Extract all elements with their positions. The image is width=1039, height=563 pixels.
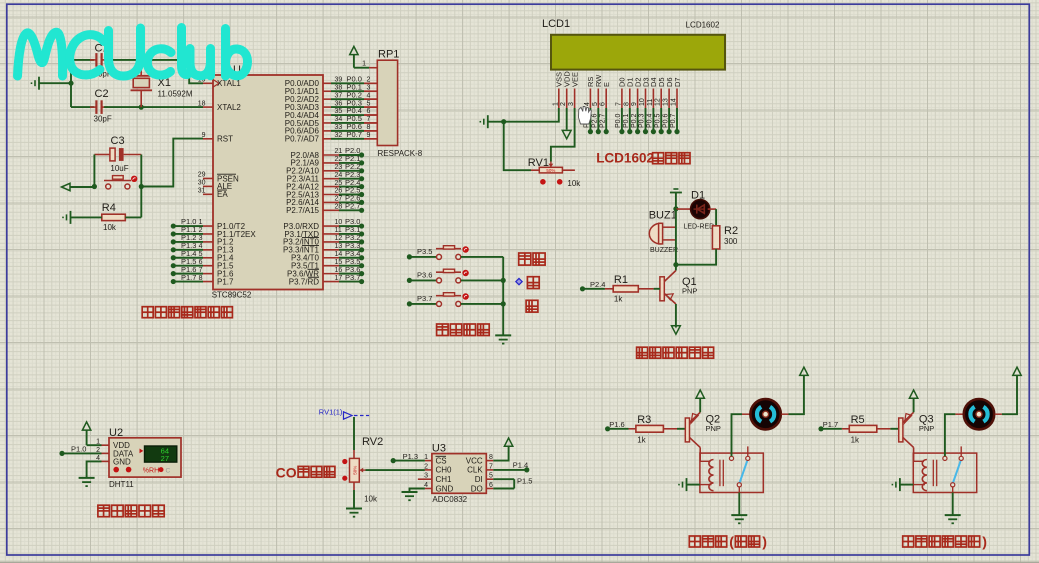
svg-text:ADC0832: ADC0832: [432, 495, 467, 504]
resistor R2: [712, 226, 719, 249]
svg-text:11: 11: [647, 99, 654, 106]
svg-text:P3.7/RD: P3.7/RD: [289, 277, 319, 286]
svg-text:DHT11: DHT11: [109, 480, 134, 489]
node P1.1: [171, 231, 176, 236]
ground (coil 继电器(通风)): [679, 478, 687, 491]
node alarm top: [673, 206, 678, 211]
svg-text:2: 2: [424, 463, 428, 470]
svg-text:P0.4: P0.4: [647, 113, 654, 128]
svg-text:P3.7: P3.7: [345, 273, 360, 282]
wire P0.1 to RP1: [331, 90, 364, 92]
ground arrow (reset, pointing left): [62, 183, 71, 190]
svg-text:CH0: CH0: [436, 466, 453, 475]
svg-text:300: 300: [724, 237, 738, 246]
svg-text:10k: 10k: [103, 223, 117, 232]
lcd LCD1 screen: [551, 35, 725, 70]
wire C2 to node: [104, 106, 141, 108]
wire P1.3: [173, 249, 203, 251]
node P2.1: [359, 160, 364, 165]
svg-text:1k: 1k: [851, 436, 860, 445]
svg-text:C2: C2: [95, 88, 109, 100]
wire C2 left lead: [71, 106, 94, 108]
label 继电器净化器): [903, 536, 914, 547]
wire GND (U3): [410, 489, 425, 493]
wire pivot to ground: [738, 493, 740, 516]
node P3.1: [359, 231, 364, 236]
wire lcd RW: [597, 108, 599, 132]
wire motor right: [995, 413, 1002, 415]
node XTAL2 net: [139, 105, 144, 110]
capacitor C1: [90, 43, 112, 79]
wire ground-arrow to button: [70, 186, 94, 188]
wire P1.7 to R5: [821, 428, 842, 430]
ground (RV2): [346, 508, 362, 510]
wire R5 to Q3: [877, 428, 891, 430]
adc U3 ADC0832: [418, 454, 493, 494]
svg-text:P2.7: P2.7: [345, 202, 360, 211]
push button (reset): [104, 176, 137, 189]
svg-text:P0.7: P0.7: [670, 113, 677, 128]
wire P3.7 to button: [409, 303, 436, 305]
svg-text:5: 5: [489, 473, 493, 480]
svg-text:6: 6: [600, 102, 607, 106]
svg-text:RV1: RV1: [528, 157, 549, 169]
wire lcd D4: [652, 108, 654, 132]
svg-text:P1.7: P1.7: [823, 420, 838, 429]
wire lcd E: [605, 108, 607, 132]
node P3.3: [359, 247, 364, 252]
wire P1.3 to CS: [393, 460, 425, 462]
svg-text:10uF: 10uF: [110, 164, 128, 173]
svg-text:P3.6: P3.6: [417, 270, 432, 279]
node P2.4: [580, 286, 585, 291]
node P3.7 (button): [407, 301, 412, 306]
relay contact stubs: [731, 453, 733, 456]
svg-text:30: 30: [198, 180, 206, 187]
svg-text:RESPACK-8: RESPACK-8: [378, 149, 423, 158]
relay pivot: [951, 483, 955, 487]
wire P3.2: [339, 241, 362, 243]
svg-text:12: 12: [655, 98, 662, 106]
svg-text:31: 31: [198, 188, 206, 195]
power terminal (RP1): [350, 46, 358, 54]
node P1.2: [171, 239, 176, 244]
wire P2.3: [339, 178, 362, 180]
wire P0.4 to RP1: [331, 114, 364, 116]
svg-text:P0.6: P0.6: [662, 113, 669, 128]
ground (U2): [79, 477, 95, 479]
wire P3.6 button to bus: [461, 279, 503, 281]
node lcd D5: [659, 129, 664, 134]
svg-text:PNP: PNP: [919, 424, 934, 433]
push button P3.7: [436, 293, 469, 307]
resistor R3: [636, 425, 664, 432]
node lcd D6: [667, 129, 672, 134]
rv1 state dots: [540, 179, 546, 185]
capacitor C3 (polarized): [94, 135, 141, 173]
svg-text:DO: DO: [471, 484, 483, 493]
wire RV2 wiper to CH0: [366, 469, 425, 471]
wire lcd D0: [621, 108, 623, 132]
svg-text:2: 2: [367, 77, 371, 84]
svg-text:CO: CO: [276, 465, 297, 481]
wire P0.3 to RP1: [331, 106, 364, 108]
svg-text:1k: 1k: [614, 295, 623, 304]
node P1.0: [171, 223, 176, 228]
label 单片机最小系统: [142, 307, 153, 318]
svg-text:C: C: [166, 468, 171, 475]
push button P3.6: [436, 269, 469, 283]
svg-text:BUZZER: BUZZER: [650, 247, 678, 254]
svg-text:R1: R1: [614, 274, 628, 286]
svg-text:LED-RED: LED-RED: [684, 224, 715, 231]
svg-text:7: 7: [489, 463, 493, 470]
svg-text:P0.5: P0.5: [654, 113, 661, 128]
node lcd D1: [627, 129, 632, 134]
svg-text:4: 4: [584, 102, 591, 106]
label 继电器(通风): [689, 536, 700, 547]
svg-text:PNP: PNP: [706, 424, 721, 433]
wire Q2 emitter up: [699, 398, 701, 412]
relay box 继电器净化器): [913, 453, 976, 492]
label 减: [526, 300, 538, 312]
svg-text:5: 5: [199, 251, 203, 258]
svg-text:R3: R3: [637, 414, 651, 426]
wire VSS to ground: [488, 108, 559, 122]
wire R2 bottom: [676, 249, 716, 265]
svg-text:RV1(1): RV1(1): [319, 408, 343, 417]
pin 4 U2: [102, 460, 110, 462]
wire VDD (U2): [87, 444, 102, 446]
op-amp U1 microcontroller STC89C52: [198, 75, 343, 290]
node P3.5: [359, 263, 364, 268]
wire node to RV1: [504, 122, 531, 171]
node lcd D2: [635, 129, 640, 134]
svg-text:%RH: %RH: [143, 468, 159, 475]
node P2.4: [359, 184, 364, 189]
wire coil to ground: [700, 484, 712, 486]
ground (buttons): [495, 334, 511, 336]
wire P1.6 to R3: [608, 428, 629, 430]
svg-text:3: 3: [568, 102, 575, 106]
wire pivot to ground: [952, 493, 954, 516]
svg-text:P0.7: P0.7: [347, 130, 362, 139]
node P3.5 (button): [407, 254, 412, 259]
transistor Q1 PNP: [660, 271, 676, 305]
wire ground to junction: [39, 82, 71, 84]
svg-text:D1: D1: [691, 190, 705, 202]
svg-text:LCD1: LCD1: [542, 18, 570, 30]
svg-text:RP1: RP1: [378, 49, 399, 61]
svg-text:STC89C52: STC89C52: [212, 291, 252, 300]
relay box 继电器(通风): [700, 453, 763, 492]
svg-text:2: 2: [199, 227, 203, 234]
node P2.3: [359, 176, 364, 181]
wire P3.6 to button: [409, 279, 436, 281]
svg-text:P3.7: P3.7: [417, 294, 432, 303]
svg-text:): ): [982, 535, 987, 551]
wire RV2 bottom: [353, 482, 355, 490]
node bus P3.6: [501, 278, 506, 283]
wire C3 right vertical: [140, 155, 142, 187]
wire P3.6: [339, 273, 362, 275]
transistor Q3 PNP: [899, 412, 914, 447]
svg-text:P0.3: P0.3: [639, 113, 646, 128]
power terminal (U3): [504, 438, 512, 446]
svg-text:6: 6: [367, 108, 371, 115]
wire P2.6: [339, 201, 362, 203]
wire motor left: [945, 414, 956, 456]
wire P2.4: [339, 186, 362, 188]
wire P0.5 to RP1: [331, 122, 364, 124]
buzzer BUZ1: [649, 210, 678, 255]
wire alarm vertical: [675, 209, 677, 265]
svg-text:2: 2: [560, 102, 567, 106]
potentiometer RV1: [531, 162, 575, 174]
label 设置: [519, 253, 531, 265]
wire P2.1: [339, 162, 362, 164]
svg-text:P2.4: P2.4: [590, 280, 605, 289]
svg-text:GND: GND: [436, 484, 454, 493]
potentiometer RV2: [350, 458, 366, 482]
wire C1 left lead: [71, 59, 94, 61]
node reset left: [92, 184, 97, 189]
svg-text:1: 1: [552, 102, 559, 106]
node lcd D0: [619, 129, 624, 134]
svg-text:BUZ1: BUZ1: [649, 210, 677, 222]
wire Q3 collector to coil: [913, 447, 915, 461]
relay coil 继电器(通风): [709, 459, 714, 490]
wire lcd D2: [637, 108, 639, 132]
node P1.6: [605, 426, 610, 431]
wire P3.5: [339, 265, 362, 267]
power terminal (Q2): [696, 390, 704, 398]
wire lcd D3: [645, 108, 647, 132]
svg-text:P1.6: P1.6: [609, 420, 624, 429]
svg-text:XTAL2: XTAL2: [217, 103, 241, 112]
svg-text:1k: 1k: [637, 436, 646, 445]
node lcd D4: [651, 129, 656, 134]
wire RV2 top: [353, 417, 355, 450]
wire Q1 emitter to ground: [675, 304, 677, 328]
wire lcd RS: [589, 108, 591, 132]
svg-text:E: E: [602, 82, 611, 87]
node P3.6: [359, 271, 364, 276]
ground (switch 继电器(通风)): [731, 514, 747, 516]
wire P1.7: [173, 281, 203, 283]
push button P3.5: [436, 246, 469, 260]
svg-text:13: 13: [663, 98, 670, 106]
svg-text:P0.1: P0.1: [623, 113, 630, 128]
wire P3.7: [339, 281, 362, 283]
wire to D1: [676, 208, 692, 210]
wire P3.5 button to bus: [461, 256, 503, 258]
wire lcd D7: [676, 108, 678, 132]
svg-text:10: 10: [639, 98, 646, 106]
wire motor left: [732, 414, 743, 456]
wire lcd D6: [668, 108, 670, 132]
pin 1 U2: [102, 444, 110, 446]
svg-text:8: 8: [367, 124, 371, 131]
svg-text:P3.5: P3.5: [417, 247, 432, 256]
node P1.5: [171, 263, 176, 268]
node P2.2: [359, 168, 364, 173]
wire P1.6: [173, 273, 203, 275]
relay pivot: [737, 483, 741, 487]
svg-text:(: (: [729, 535, 734, 551]
svg-text:P1.7: P1.7: [217, 277, 234, 286]
node P3.6 (button): [407, 278, 412, 283]
svg-text:U3: U3: [432, 443, 446, 455]
svg-text:EA: EA: [217, 190, 228, 199]
svg-text:6: 6: [199, 259, 203, 266]
svg-text:7: 7: [199, 267, 203, 274]
wire P2.5: [339, 194, 362, 196]
svg-text:P0.7/AD7: P0.7/AD7: [285, 135, 320, 144]
wire C1 to node: [104, 59, 141, 61]
wire XTAL1 net: [141, 60, 203, 83]
wire P2.0: [339, 154, 362, 156]
wire P3.7 button to bus: [461, 303, 503, 305]
node P3.4: [359, 255, 364, 260]
svg-text:P0.0: P0.0: [615, 113, 622, 128]
ground (switch 继电器净化器)): [945, 514, 961, 516]
svg-text:14: 14: [671, 98, 678, 106]
node P1.6: [171, 271, 176, 276]
wire P0.7 to RP1: [331, 138, 364, 140]
svg-text:DI: DI: [475, 475, 483, 484]
svg-text:P2.7: P2.7: [599, 113, 606, 128]
resistor R4: [102, 202, 126, 232]
wire DATA (U2): [62, 452, 102, 454]
ground (left of C1/C2): [32, 77, 40, 90]
wire P1.1: [173, 233, 203, 235]
capacitor C2: [90, 88, 112, 124]
logo MCUclub: [18, 28, 248, 77]
node P1.7: [171, 279, 176, 284]
ground (left of R4): [63, 211, 71, 224]
label 加: [527, 277, 539, 289]
wire RP1 pin1: [354, 67, 369, 69]
wire P1.0: [173, 225, 203, 227]
wire lcd D5: [660, 108, 662, 132]
wire P2.4 to R1: [583, 288, 605, 290]
node P3.2: [359, 239, 364, 244]
wire vertical C1-C2 branch: [70, 60, 72, 107]
node reset right: [139, 184, 144, 189]
wire VCC (U3): [493, 447, 508, 461]
svg-text:D7: D7: [673, 77, 682, 87]
svg-text:VCC: VCC: [466, 456, 483, 465]
node P1.4: [524, 467, 529, 472]
svg-text:P2.6: P2.6: [592, 113, 599, 128]
motor 继电器净化器): [964, 399, 994, 429]
motor 继电器(通风): [750, 399, 780, 429]
node lcd D7: [674, 129, 679, 134]
svg-text:R2: R2: [724, 225, 738, 237]
ground (U3): [402, 491, 418, 493]
svg-text:PNP: PNP: [682, 287, 697, 296]
wire reset to RST pin: [141, 139, 203, 187]
svg-text:3: 3: [367, 84, 371, 91]
svg-text:RV2: RV2: [362, 436, 383, 448]
diode D1 LED-RED: [691, 200, 710, 219]
svg-text:7: 7: [615, 102, 622, 106]
svg-text:R5: R5: [851, 414, 865, 426]
rv2 state dots: [342, 459, 347, 464]
svg-text:9: 9: [367, 132, 371, 139]
ground (coil 继电器净化器)): [892, 478, 900, 491]
wire VDD down: [566, 108, 568, 130]
wire motor right: [781, 413, 788, 415]
wire R1 to Q1 base: [638, 288, 653, 290]
wire P3.0: [339, 225, 362, 227]
wire CLK (U3): [493, 469, 527, 471]
svg-text:1: 1: [199, 219, 203, 226]
svg-text:P2.7/A15: P2.7/A15: [286, 206, 319, 215]
svg-text:30pF: 30pF: [94, 115, 112, 124]
node P2.7: [359, 208, 364, 213]
label 声光报警电路: [637, 347, 648, 358]
svg-text:CLK: CLK: [467, 466, 483, 475]
relay blade (cyan): [740, 461, 748, 483]
wire VEE to RV1 wiper: [551, 108, 575, 162]
pin 2 U2: [102, 452, 110, 454]
node P1.4: [171, 255, 176, 260]
node Q1 collector net: [673, 262, 678, 267]
cursor hand: [579, 107, 592, 125]
svg-text:LCD1602: LCD1602: [686, 21, 720, 30]
relay blade (cyan): [953, 461, 961, 483]
svg-text:GND: GND: [113, 458, 131, 467]
relay coil 继电器净化器): [922, 459, 927, 490]
svg-text:10k: 10k: [567, 179, 581, 188]
ground arrow (Q1): [672, 326, 681, 334]
wire GND (U2): [87, 461, 102, 478]
resistor R1: [613, 286, 638, 292]
marker origin (blue): [516, 278, 522, 284]
node P1.3: [171, 247, 176, 252]
node junction C1-C2 branch: [68, 81, 73, 86]
lcd pins and pin names: [552, 71, 682, 108]
node lcd RS: [588, 129, 593, 134]
svg-text:P1.7: P1.7: [181, 273, 196, 282]
svg-text:50%: 50%: [353, 466, 358, 475]
node P2.6: [359, 200, 364, 205]
crystal X1: [131, 60, 193, 107]
svg-text:R4: R4: [102, 202, 116, 214]
node P3.0: [359, 223, 364, 228]
ground (VSS): [480, 115, 488, 128]
wire P2.2: [339, 170, 362, 172]
node P1.0: [59, 451, 64, 456]
node P2.5: [359, 192, 364, 197]
svg-text:1: 1: [362, 61, 366, 68]
wire P1.4: [173, 257, 203, 259]
label 温湿度模块: [98, 505, 110, 517]
svg-text:9: 9: [631, 102, 638, 106]
svg-text:3: 3: [199, 235, 203, 242]
ground arrow (VDD): [562, 130, 571, 138]
svg-text:5: 5: [367, 100, 371, 107]
node P2.0: [359, 152, 364, 157]
wire DI/DO (U3): [493, 478, 514, 480]
wire P3.4: [339, 257, 362, 259]
node P1.3: [391, 458, 396, 463]
resistor pack RP1: [364, 60, 398, 145]
wire P3.3: [339, 249, 362, 251]
svg-text:18: 18: [198, 100, 206, 107]
